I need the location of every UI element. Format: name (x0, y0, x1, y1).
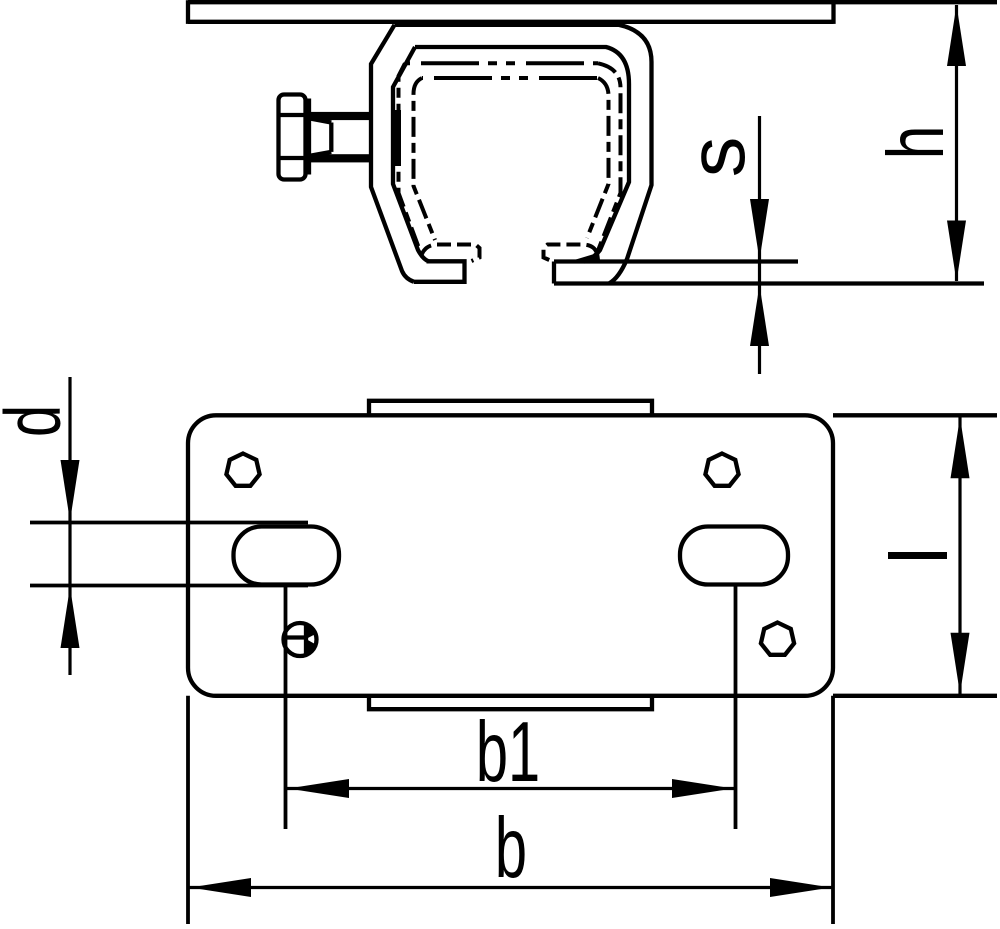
right flange bottom line (s/h lower reference) (554, 281, 984, 285)
bolt contact black bar (391, 110, 401, 166)
l extension: plate top edge extended (833, 413, 997, 417)
right flange left edge (552, 262, 556, 284)
clamp inner contour left (393, 47, 429, 262)
phantom rail inner top/right (587, 78, 609, 238)
screw end symbol (284, 623, 317, 657)
dimension s lower arrow (750, 285, 769, 346)
ceiling plate top line (extends right as extension line for h) (188, 0, 997, 4)
b left arrow (190, 878, 251, 897)
l dimension line (958, 415, 961, 696)
svg-text:h: h (872, 126, 961, 160)
svg-text:b: b (495, 801, 527, 896)
ceiling plate right edge (831, 2, 835, 24)
dimension h line (955, 5, 958, 281)
svg-text:b1: b1 (476, 705, 540, 800)
d extension line upper (30, 521, 308, 525)
d extension line lower (30, 584, 308, 588)
clamp outer contour left (371, 25, 414, 282)
svg-text:d: d (0, 405, 77, 437)
b1 dimension line (286, 787, 736, 790)
dimension h lower arrow (947, 221, 966, 282)
b right arrow (770, 878, 831, 897)
d lower arrow (61, 587, 80, 648)
phantom rail outer lip hook right (544, 245, 598, 262)
l lower arrow (951, 633, 970, 694)
d upper arrow (61, 460, 80, 521)
bolt taper top (310, 119, 331, 123)
b1 left arrow (288, 779, 349, 798)
b dimension line (188, 886, 833, 889)
label l (888, 552, 947, 559)
right flange top line (s upper reference) (554, 259, 798, 263)
clamp outer top and right (395, 25, 652, 284)
svg-text:s: s (673, 137, 762, 178)
l extension: plate bottom edge extended (833, 694, 997, 698)
rail tab bottom (369, 696, 652, 709)
dimension s line (758, 116, 761, 374)
phantom rail inner line left (414, 78, 436, 240)
phantom rail outer top (597, 63, 621, 253)
dimension s upper arrow (750, 199, 769, 260)
hex hole top-left (226, 454, 259, 486)
bolt shaft top band (305, 112, 370, 120)
dimension h upper arrow (947, 5, 966, 66)
b1 right arrow (672, 779, 733, 798)
d dimension line (68, 377, 71, 675)
phantom rail outer top line (405, 61, 598, 65)
bolt thread start (329, 123, 333, 152)
clamp inner top and right (415, 47, 629, 262)
clamp left foot (414, 261, 465, 282)
bolt head facet line lower (279, 156, 305, 160)
l upper arrow (951, 417, 970, 478)
b extension line left (186, 696, 190, 924)
mounting plate outline (188, 415, 833, 696)
b extension line right (831, 696, 835, 924)
bolt hex head (279, 95, 306, 180)
bolt shaft bottom band (305, 154, 370, 162)
bolt taper bottom (310, 152, 331, 156)
b1 extension line right (734, 586, 738, 829)
b1 extension line left (284, 586, 288, 829)
slot left (234, 527, 340, 585)
phantom rail outer line (399, 63, 422, 255)
solid wedge at right foot bend (575, 253, 600, 260)
bolt collar (307, 99, 311, 175)
phantom rail inner top line (422, 76, 598, 80)
phantom rail outer lip hook left (422, 245, 480, 262)
ceiling plate left edge (186, 0, 190, 24)
hex hole top-right (705, 454, 738, 486)
slot right (680, 527, 788, 585)
hex hole bottom-right (761, 623, 794, 655)
rail tab top (369, 401, 652, 416)
bolt head facet line upper (279, 113, 305, 117)
ceiling plate bottom line (188, 20, 834, 24)
